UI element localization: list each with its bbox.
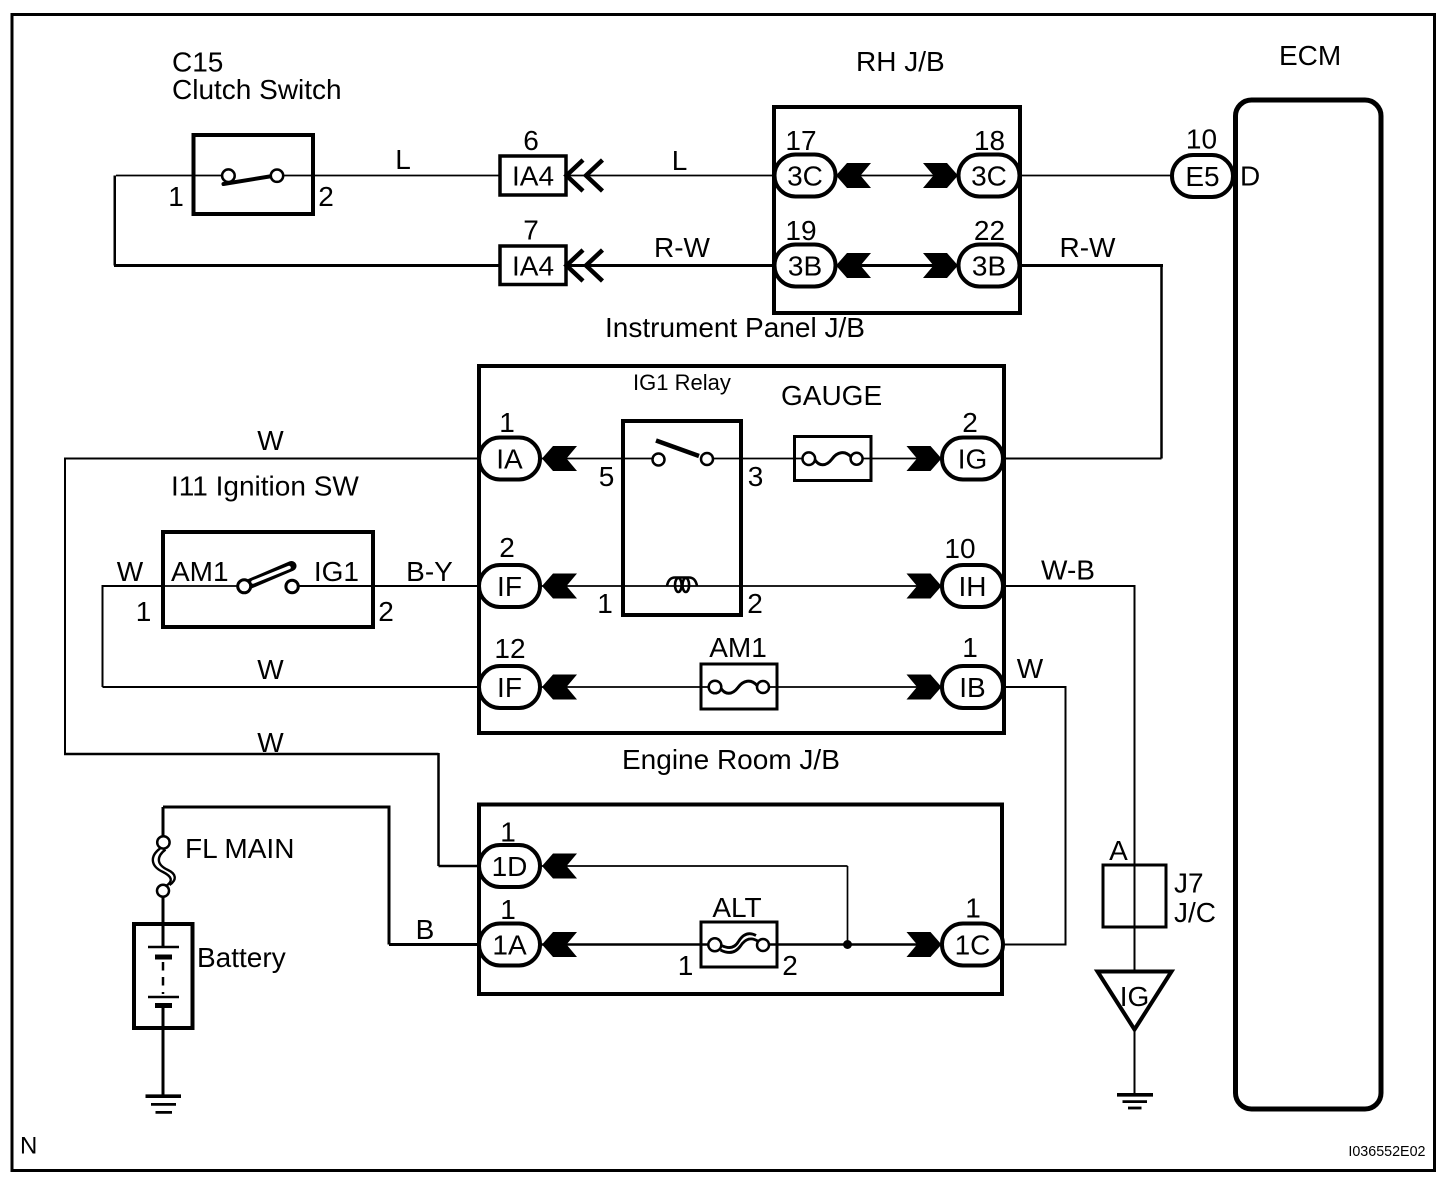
svg-text:IG1: IG1 <box>314 556 359 587</box>
svg-text:W: W <box>257 727 284 758</box>
svg-text:3C: 3C <box>971 161 1007 192</box>
svg-text:1: 1 <box>597 588 613 619</box>
svg-text:N: N <box>20 1133 37 1160</box>
svg-text:W: W <box>117 556 144 587</box>
svg-text:AM1: AM1 <box>171 556 229 587</box>
svg-text:18: 18 <box>974 125 1005 156</box>
svg-text:5: 5 <box>599 461 615 492</box>
svg-text:L: L <box>395 144 411 175</box>
svg-text:3B: 3B <box>972 251 1006 282</box>
svg-text:Battery: Battery <box>197 942 286 973</box>
svg-text:2: 2 <box>318 181 334 212</box>
svg-text:B-Y: B-Y <box>406 556 453 587</box>
svg-text:IA4: IA4 <box>512 251 554 282</box>
svg-text:3: 3 <box>748 461 764 492</box>
svg-text:22: 22 <box>974 215 1005 246</box>
svg-text:A: A <box>1109 835 1128 866</box>
svg-text:1: 1 <box>136 596 152 627</box>
svg-text:12: 12 <box>494 633 525 664</box>
svg-text:W: W <box>257 654 284 685</box>
svg-text:1: 1 <box>965 893 981 924</box>
svg-text:IG1 Relay: IG1 Relay <box>633 370 731 395</box>
svg-text:B: B <box>416 914 435 945</box>
svg-text:IF: IF <box>497 672 522 703</box>
svg-text:FL MAIN: FL MAIN <box>185 833 294 864</box>
svg-text:R-W: R-W <box>1060 232 1117 263</box>
svg-text:I11 Ignition SW: I11 Ignition SW <box>171 471 359 502</box>
svg-text:R-W: R-W <box>654 232 711 263</box>
svg-text:J/C: J/C <box>1174 897 1216 928</box>
svg-text:7: 7 <box>523 215 539 246</box>
svg-text:2: 2 <box>378 596 394 627</box>
svg-text:L: L <box>672 145 688 176</box>
svg-text:1: 1 <box>678 950 694 981</box>
svg-text:2: 2 <box>747 588 763 619</box>
svg-text:I036552E02: I036552E02 <box>1348 1144 1425 1160</box>
svg-text:W-B: W-B <box>1041 555 1095 586</box>
svg-text:Engine Room J/B: Engine Room J/B <box>622 744 840 775</box>
svg-text:E5: E5 <box>1185 161 1219 192</box>
svg-text:Clutch Switch: Clutch Switch <box>172 74 342 105</box>
svg-text:3B: 3B <box>788 251 822 282</box>
svg-text:ECM: ECM <box>1279 40 1341 71</box>
svg-text:W: W <box>257 425 284 456</box>
svg-text:ALT: ALT <box>712 892 761 923</box>
svg-text:RH J/B: RH J/B <box>856 46 945 77</box>
svg-text:IG: IG <box>1120 981 1150 1012</box>
svg-text:J7: J7 <box>1174 868 1204 899</box>
svg-text:Instrument Panel J/B: Instrument Panel J/B <box>605 312 865 343</box>
svg-text:IB: IB <box>959 672 985 703</box>
svg-text:10: 10 <box>944 533 975 564</box>
svg-text:W: W <box>1017 653 1044 684</box>
svg-text:1: 1 <box>962 632 978 663</box>
svg-text:10: 10 <box>1186 124 1217 155</box>
svg-text:IH: IH <box>959 571 987 602</box>
svg-text:1A: 1A <box>492 930 527 961</box>
svg-text:2: 2 <box>782 950 798 981</box>
svg-text:GAUGE: GAUGE <box>781 380 882 411</box>
svg-text:C15: C15 <box>172 47 223 78</box>
svg-text:1C: 1C <box>955 930 991 961</box>
svg-text:IF: IF <box>497 571 522 602</box>
svg-text:1: 1 <box>168 181 184 212</box>
svg-text:1: 1 <box>499 407 515 438</box>
svg-text:2: 2 <box>962 407 978 438</box>
svg-text:IG: IG <box>958 444 988 475</box>
svg-text:IA4: IA4 <box>512 161 554 192</box>
svg-text:AM1: AM1 <box>709 632 767 663</box>
svg-text:1: 1 <box>500 894 516 925</box>
svg-text:6: 6 <box>523 125 539 156</box>
svg-text:2: 2 <box>499 532 515 563</box>
svg-text:1D: 1D <box>492 851 528 882</box>
svg-text:17: 17 <box>785 125 816 156</box>
svg-text:3C: 3C <box>787 161 823 192</box>
svg-text:19: 19 <box>785 215 816 246</box>
svg-text:D: D <box>1240 161 1260 192</box>
svg-text:IA: IA <box>496 444 523 475</box>
svg-text:1: 1 <box>500 817 516 848</box>
